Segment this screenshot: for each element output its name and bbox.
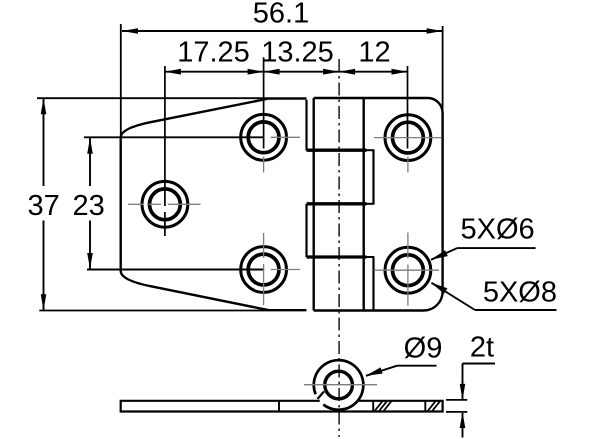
knuckle step 1 — [307, 149, 367, 152]
svg-text:13.25: 13.25 — [261, 37, 334, 69]
barrel right silhouette — [363, 98, 365, 311]
wire: extension line at x=407.5 down to top-right hole — [407, 66, 409, 149]
part outline: right leaf with rounded corners — [314, 98, 443, 311]
dimension chain line 17.25 / 13.25 / 12 — [165, 71, 408, 73]
svg-text:37: 37 — [27, 190, 59, 222]
wire: bottom hole row centerline + 23 extension (black) — [87, 269, 264, 271]
label 5XO8 leader — [475, 309, 557, 311]
knuckle step 3 — [307, 255, 367, 258]
label 5XO6 leader — [457, 247, 535, 249]
side view plate outline — [121, 401, 443, 412]
H1 horizontal centerline — [128, 203, 144, 205]
hole H5 (right-leaf bottom) — [385, 247, 431, 293]
wire: extension line at x=164.9 down through middle-left hole — [164, 66, 166, 206]
hatch patch 2 — [427, 401, 440, 412]
hole H3 (left-leaf bottom) — [241, 247, 287, 293]
svg-text:12: 12 — [358, 37, 390, 69]
wire: top edge extension line (37 dim) — [37, 97, 269, 99]
wire: extension line at x=263.6 down to top hole — [263, 57, 265, 148]
svg-text:17.25: 17.25 — [177, 37, 250, 69]
right leaf cut edge in side view — [372, 401, 374, 412]
hinge axis centerline (dash-dot, both views) — [338, 59, 340, 437]
right leaf cut edge lower — [372, 257, 374, 310]
plate joint line left — [278, 401, 280, 412]
hole H1 (middle-left) outer — [142, 181, 188, 227]
pin hole circle — [325, 371, 353, 399]
hole H2 (left-leaf top) — [241, 114, 287, 160]
curl outer circle (with gap at lower-left) — [314, 360, 364, 410]
svg-text:5XØ8: 5XØ8 — [483, 277, 557, 309]
label O9 leader — [397, 365, 437, 367]
svg-text:Ø9: Ø9 — [404, 333, 443, 365]
curl horizontal centerline — [304, 384, 377, 386]
wire: 2t extension top — [446, 399, 467, 401]
svg-text:56.1: 56.1 — [253, 0, 309, 30]
svg-text:2t: 2t — [470, 332, 494, 364]
wire: 56.1 top extension line left — [120, 24, 122, 137]
knuckle step 2 — [307, 202, 367, 205]
right leaf cut edge upper — [372, 150, 374, 204]
wire: 2t extension bottom — [446, 411, 467, 413]
dimension 56.1 line — [122, 30, 443, 32]
wire: bottom edge extension line (37 dim) — [39, 310, 269, 312]
left leaf cut edge upper — [305, 100, 307, 151]
hole H4 (right-leaf top) — [385, 115, 431, 161]
hatch boundary — [424, 401, 426, 412]
svg-text:23: 23 — [72, 190, 104, 222]
dimension 37 line — [43, 98, 45, 186]
curl end edge — [318, 392, 325, 399]
svg-text:5XØ6: 5XØ6 — [461, 214, 535, 246]
barrel left silhouette — [313, 98, 315, 311]
part outline: left leaf — [121, 99, 307, 311]
wire: top hole row centerline + 23 extension (black) — [84, 136, 264, 138]
wire: 56.1 top extension line right — [442, 26, 444, 113]
left leaf cut edge lower — [305, 204, 307, 257]
dimension 23 line — [89, 138, 91, 186]
hatch patch 1 — [374, 401, 392, 412]
